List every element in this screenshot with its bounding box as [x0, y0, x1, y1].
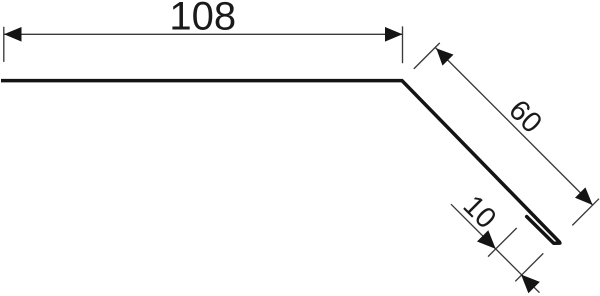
- svg-text:108: 108: [169, 0, 236, 39]
- svg-text:10: 10: [457, 190, 502, 235]
- svg-text:60: 60: [502, 94, 547, 139]
